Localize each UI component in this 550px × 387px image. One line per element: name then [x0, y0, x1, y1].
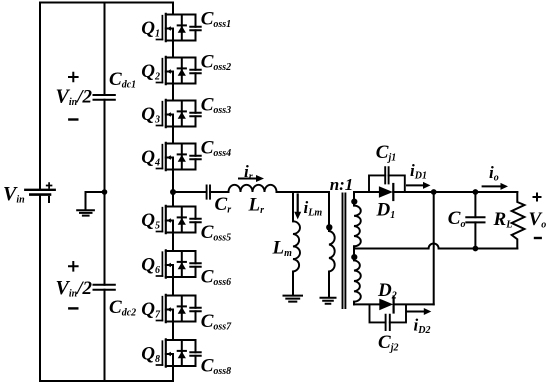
svg-text:n:1: n:1: [330, 175, 354, 194]
